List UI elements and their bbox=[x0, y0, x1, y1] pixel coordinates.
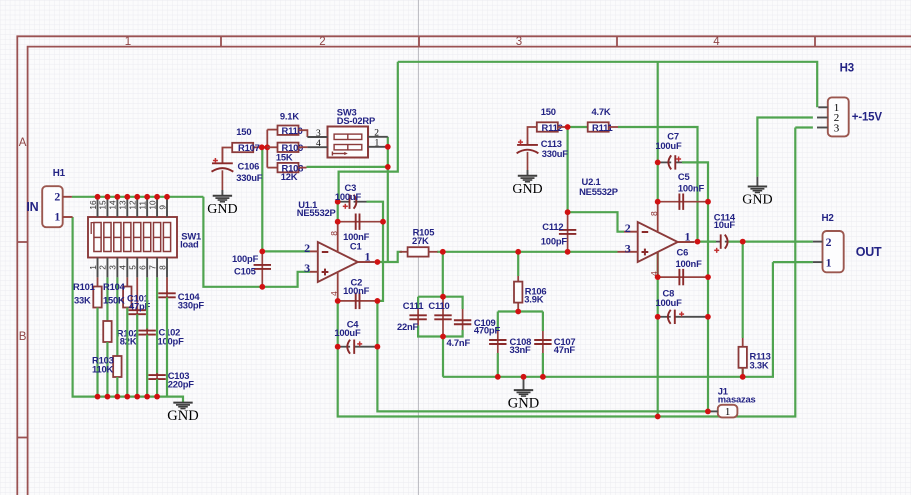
wire C111 top lead drop bbox=[417, 297, 419, 309]
connector H1 bbox=[42, 186, 63, 227]
ground symbol ladder GND bbox=[173, 402, 192, 404]
resistor R109 bbox=[267, 146, 277, 148]
resistor R105 bbox=[400, 251, 408, 253]
connector H3 bbox=[828, 97, 849, 136]
wire R105 node down to C110 rail bbox=[442, 252, 444, 297]
resistor R101 bbox=[93, 287, 101, 308]
wire C2 right down to C4 right bbox=[376, 301, 378, 347]
svg-text:C6: C6 bbox=[677, 246, 689, 257]
C106 lead to ground bbox=[221, 190, 223, 196]
junction dot SW1 pin 9 bbox=[164, 194, 170, 200]
svg-text:100uF: 100uF bbox=[334, 327, 361, 338]
svg-text:3: 3 bbox=[516, 36, 522, 48]
svg-text:R107: R107 bbox=[238, 142, 260, 153]
R111 lead right bbox=[609, 126, 618, 128]
svg-text:100uF: 100uF bbox=[656, 297, 683, 308]
wire SW3 pin2 down to pin1 node bbox=[387, 137, 389, 147]
capacitor C109 bbox=[462, 309, 464, 330]
svg-text:100pF: 100pF bbox=[158, 335, 185, 346]
junction dot C114 right bbox=[740, 239, 746, 245]
junction dot ground stub bbox=[521, 374, 527, 380]
junction dot R107 right bbox=[259, 144, 265, 150]
wire U2 pin4 to C6 C8 left bbox=[657, 252, 659, 316]
junction dot C105 top bbox=[259, 249, 265, 255]
capacitor C3 polarized bbox=[338, 201, 350, 203]
SW1 slide element 3 bbox=[114, 223, 121, 252]
capacitor C5 bbox=[658, 201, 708, 203]
U1 pin8 line bbox=[337, 222, 339, 253]
J1 pin stub bbox=[708, 410, 718, 412]
svg-text:100nF: 100nF bbox=[678, 183, 705, 194]
junction dot R103 rail bbox=[114, 394, 120, 400]
svg-text:12K: 12K bbox=[281, 171, 298, 182]
capacitor C111 bbox=[417, 309, 419, 326]
SW1 slide element 1 bbox=[94, 223, 101, 252]
svg-text:H3: H3 bbox=[840, 62, 854, 74]
svg-text:load: load bbox=[180, 239, 199, 250]
connector H2 bbox=[823, 231, 844, 272]
frame tick column 3-4 bbox=[616, 36, 618, 46]
svg-text:6: 6 bbox=[137, 265, 147, 270]
junction dot R109 bus bbox=[264, 144, 270, 150]
wire C105 bottom to U1 pin3 bbox=[262, 272, 310, 287]
svg-text:2: 2 bbox=[98, 265, 108, 270]
capacitor C8 polarized bbox=[658, 316, 671, 318]
wire U1 output branch down to C2 right bbox=[377, 262, 383, 301]
wire U1 V+ column C3 to C1 bbox=[337, 202, 339, 222]
R112 lead to C113 bbox=[528, 127, 537, 145]
H1 pin 2 stub bbox=[63, 196, 72, 198]
U1 pin4 line bbox=[337, 272, 339, 301]
svg-text:8: 8 bbox=[329, 231, 339, 236]
U2 pin3 stub bbox=[618, 251, 638, 253]
wire R106 bottom rail corner to C108 bbox=[497, 312, 499, 332]
svg-text:GND: GND bbox=[512, 182, 542, 197]
resistor R102 bbox=[103, 321, 111, 342]
wire ground rail under C108 C107 bbox=[443, 262, 773, 377]
frame tick column 2-3 bbox=[418, 36, 420, 46]
SW1 top pin 14 bbox=[116, 197, 118, 217]
C113 lead to ground bbox=[527, 170, 529, 176]
resistor R106 bbox=[517, 276, 519, 282]
SW3 pin 4 stub bbox=[307, 146, 327, 148]
junction dot C110 bottom bbox=[440, 334, 446, 340]
junction dot SW1 pin 16 bbox=[95, 194, 101, 200]
H3 pin1 stub bbox=[818, 106, 828, 108]
junction dot C6 left bbox=[655, 274, 661, 280]
junction dot C107 bottom bbox=[540, 374, 546, 380]
junction dot J1 bbox=[705, 409, 711, 415]
op-amp U2.1 bbox=[638, 222, 678, 262]
wire R102 to rail bbox=[106, 342, 108, 397]
SW1 bottom pin 7 bbox=[156, 258, 158, 278]
wire R112 node down to C112 bbox=[566, 127, 568, 212]
junction dot R104 rail bbox=[124, 394, 130, 400]
op-amp U1.1 bbox=[318, 242, 358, 282]
U2 pin4 line bbox=[657, 252, 659, 277]
svg-text:7: 7 bbox=[147, 265, 157, 270]
svg-text:8: 8 bbox=[649, 211, 659, 216]
junction dot SW1 pin 12 bbox=[134, 194, 140, 200]
wire C107 bottom to ground rail bbox=[542, 353, 544, 377]
junction dot C5 left bbox=[655, 199, 661, 205]
U2 pin2 stub bbox=[624, 231, 638, 233]
frame tick column 4-5 bbox=[814, 36, 816, 46]
U2 output stub bbox=[678, 241, 695, 243]
wire C4 right down to masazas rail bbox=[377, 347, 708, 412]
SW3 actuator arrow bbox=[331, 152, 333, 156]
svg-text:4.7K: 4.7K bbox=[592, 106, 611, 117]
junction dot C108 bottom bbox=[495, 374, 501, 380]
SW3 pin 1 stub bbox=[368, 146, 388, 148]
svg-text:C1: C1 bbox=[350, 241, 362, 252]
capacitor C1 bbox=[338, 221, 383, 223]
SW3 pin 3 stub bbox=[307, 136, 327, 138]
resistor R113 bbox=[742, 338, 744, 347]
svg-text:1: 1 bbox=[375, 139, 380, 149]
wire SW3 pin1 node down to R108 node bbox=[387, 147, 389, 167]
wire C3 right to C1 right bbox=[367, 202, 384, 222]
junction dot C4 left bbox=[335, 344, 341, 350]
svg-text:R104: R104 bbox=[103, 281, 126, 292]
junction dot C101 rail bbox=[134, 394, 140, 400]
svg-text:33K: 33K bbox=[74, 294, 91, 305]
wire H1 pin2 to SW1 input bus bbox=[72, 196, 204, 198]
wire column pin2 down bbox=[106, 277, 108, 321]
svg-text:2: 2 bbox=[304, 241, 310, 255]
svg-text:NE5532P: NE5532P bbox=[579, 186, 618, 197]
junction dot C1 right bbox=[380, 219, 386, 225]
R108 lead to node bbox=[299, 167, 307, 169]
connector J1 bbox=[718, 405, 738, 418]
junction dot C2 right bbox=[375, 298, 381, 304]
svg-text:2: 2 bbox=[54, 189, 60, 203]
svg-text:8: 8 bbox=[157, 265, 167, 270]
wire C7 right to C5 right column bbox=[682, 162, 708, 201]
capacitor C7 polarized bbox=[658, 161, 672, 163]
wire column pin3 down bbox=[116, 277, 118, 356]
wire C112 top node to U2 pin2 bbox=[568, 212, 624, 232]
junction dot C8 right bbox=[705, 314, 711, 320]
U1 output pin1 stub bbox=[358, 261, 375, 263]
SW3 slide element bottom bbox=[334, 145, 362, 150]
wire column pin5 to C101 bbox=[136, 277, 138, 310]
junction dot SW1 pin 13 bbox=[124, 194, 130, 200]
wire top +15V bus bbox=[398, 62, 817, 108]
svg-text:22nF: 22nF bbox=[397, 321, 419, 332]
junction dot R102 rail bbox=[105, 394, 111, 400]
SW1 bottom pin 1 bbox=[97, 258, 99, 278]
capacitor C107 bbox=[542, 331, 544, 353]
svg-text:1: 1 bbox=[826, 256, 832, 270]
ground symbol center GND bbox=[514, 389, 533, 391]
junction dot U1 output bbox=[375, 259, 381, 265]
svg-text:3: 3 bbox=[834, 122, 840, 134]
junction dot C112 bottom bbox=[565, 249, 571, 255]
capacitor C101 bbox=[136, 308, 138, 316]
svg-text:C110: C110 bbox=[428, 300, 449, 311]
SW1 bottom pin 5 bbox=[136, 258, 138, 278]
capacitor C112 bbox=[567, 212, 569, 252]
wire H3 pin2 down to GND bbox=[757, 118, 813, 177]
wire R104 to rail bbox=[126, 308, 128, 397]
svg-text:100uF: 100uF bbox=[655, 140, 682, 151]
wire U1 output to R105 elbow bbox=[377, 252, 402, 262]
U2 pin8 line bbox=[657, 202, 659, 232]
frame tick column 1-2 bbox=[220, 36, 222, 46]
wire R103 to rail bbox=[116, 377, 118, 397]
capacitor C104 bbox=[166, 291, 168, 299]
capacitor C106 lead from R107 bbox=[222, 148, 232, 164]
wire H1 pin1 down to ground rail bbox=[73, 217, 98, 397]
svg-text:2: 2 bbox=[826, 235, 832, 249]
SW1 bottom pin 3 bbox=[116, 258, 118, 278]
wire C7 left to C5 left bbox=[657, 162, 659, 201]
H2 pin2 stub bbox=[813, 241, 823, 243]
svg-text:1: 1 bbox=[365, 249, 371, 263]
svg-text:C105: C105 bbox=[234, 266, 256, 277]
svg-text:3: 3 bbox=[108, 265, 118, 270]
junction dot C112 top bbox=[565, 209, 571, 215]
junction dot R112 R111 node bbox=[565, 124, 571, 130]
wire C110 bottom node down to ground rail bbox=[442, 337, 444, 377]
resistor R108 bbox=[267, 167, 277, 169]
H3 pin2 stub bbox=[817, 117, 828, 119]
junction dot C1 left bbox=[335, 219, 341, 225]
junction dot R108 node bbox=[385, 164, 391, 170]
wire column pin7 to C103 bbox=[156, 277, 158, 375]
frame tick row A-B bbox=[17, 241, 27, 243]
resistor R112 bbox=[537, 122, 558, 131]
R110 lead to SW3 pin3 bbox=[299, 130, 308, 137]
svg-text:150: 150 bbox=[541, 106, 556, 117]
wire C101 to rail bbox=[136, 314, 138, 396]
junction dot SW1 pin 11 bbox=[144, 194, 150, 200]
junction dot R101 rail bbox=[95, 394, 101, 400]
svg-text:10uF: 10uF bbox=[714, 219, 736, 230]
wire SW1 bus corner down to C105 bbox=[203, 197, 262, 287]
svg-text:330pF: 330pF bbox=[178, 299, 205, 310]
svg-text:4: 4 bbox=[713, 36, 720, 48]
capacitor C114 polarized bbox=[716, 241, 721, 243]
junction dot SW1 pin 14 bbox=[114, 194, 120, 200]
svg-text:14: 14 bbox=[108, 200, 118, 210]
svg-text:H2: H2 bbox=[822, 213, 835, 224]
svg-text:100nF: 100nF bbox=[676, 258, 703, 269]
wire R106 bottom rail corner to C107 bbox=[542, 312, 544, 332]
wire R107 node to R109 bus bbox=[262, 146, 268, 148]
wire U2 output to C114 bbox=[698, 241, 717, 243]
svg-text:3: 3 bbox=[304, 261, 310, 275]
capacitor C105 bbox=[261, 251, 263, 286]
svg-text:3.9K: 3.9K bbox=[524, 293, 543, 304]
svg-text:9: 9 bbox=[157, 205, 167, 210]
R109 lead to SW3 pin4 bbox=[299, 146, 308, 148]
svg-text:2: 2 bbox=[374, 129, 379, 139]
svg-text:GND: GND bbox=[207, 202, 237, 217]
SW1 top pin 16 bbox=[97, 197, 99, 217]
wire SW1 ladder ground rail bbox=[98, 397, 184, 403]
wire C111 C110 C109 top rail bbox=[418, 297, 463, 309]
SW1 slide element 7 bbox=[153, 223, 160, 252]
svg-text:3: 3 bbox=[316, 129, 321, 139]
frame tick row B-C bbox=[17, 437, 27, 439]
wire column pin4 to R104 bbox=[126, 277, 128, 286]
SW1 slide element 8 bbox=[163, 223, 170, 252]
U1 pin3 stub bbox=[310, 271, 318, 273]
svg-text:100pF: 100pF bbox=[232, 253, 259, 264]
wire C1 right down to U1 output row bbox=[382, 222, 384, 262]
wire R112 to R111 bbox=[568, 126, 588, 128]
wire C102 to rail bbox=[146, 335, 148, 397]
SW1 top pin 9 bbox=[166, 197, 168, 217]
wire H2 pin1 to ground rail bbox=[773, 261, 813, 263]
SW1 slide element 2 bbox=[104, 223, 111, 252]
svg-text:4.7nF: 4.7nF bbox=[447, 337, 471, 348]
R112 lead right bbox=[558, 126, 568, 128]
svg-text:B: B bbox=[19, 331, 27, 343]
svg-text:5: 5 bbox=[128, 265, 138, 270]
svg-text:10: 10 bbox=[147, 200, 157, 210]
junction dot C102 rail bbox=[144, 394, 150, 400]
junction dot C5 right bbox=[705, 199, 711, 205]
svg-text:1: 1 bbox=[725, 406, 731, 418]
svg-text:C111: C111 bbox=[403, 300, 424, 311]
capacitor C113 polarized bbox=[527, 140, 529, 145]
svg-text:15: 15 bbox=[98, 200, 108, 210]
wire R106 node to C112 and U2 pin3 bbox=[518, 251, 617, 253]
svg-text:4: 4 bbox=[118, 265, 128, 270]
svg-text:R101: R101 bbox=[73, 281, 95, 292]
junction dot C7 left bbox=[655, 160, 661, 166]
switch SW1 body bbox=[88, 217, 177, 258]
capacitor C110 bbox=[442, 297, 444, 337]
svg-text:9.1K: 9.1K bbox=[280, 110, 299, 121]
wire U2 power column down to -15V rail bbox=[657, 317, 659, 417]
svg-text:150: 150 bbox=[236, 126, 251, 137]
capacitor C6 bbox=[658, 276, 708, 278]
junction dot C4 right bbox=[375, 344, 381, 350]
svg-text:A: A bbox=[19, 137, 27, 149]
wire C105 top node to U1 pin2 bbox=[262, 250, 310, 252]
svg-text:1: 1 bbox=[125, 36, 131, 48]
svg-text:150K: 150K bbox=[103, 294, 125, 305]
svg-text:100pF: 100pF bbox=[541, 235, 568, 246]
SW1 actuator mark bbox=[91, 223, 94, 234]
capacitor C102 bbox=[146, 329, 148, 337]
svg-text:3.3K: 3.3K bbox=[750, 359, 769, 370]
capacitor C4 polarized bbox=[338, 346, 350, 348]
sheet column divider line bbox=[417, 0, 419, 495]
svg-text:1: 1 bbox=[54, 210, 60, 224]
svg-text:470pF: 470pF bbox=[474, 325, 501, 336]
svg-text:H1: H1 bbox=[53, 168, 66, 179]
svg-text:C106: C106 bbox=[238, 161, 260, 172]
junction dot C3 left bbox=[335, 199, 341, 205]
svg-text:IN: IN bbox=[26, 200, 38, 214]
resistor R110 bbox=[267, 129, 277, 131]
SW1 slide element 5 bbox=[134, 223, 141, 252]
SW3 slide element top bbox=[334, 134, 362, 139]
svg-text:110K: 110K bbox=[92, 364, 114, 375]
SW1 top pin 12 bbox=[136, 197, 138, 217]
SW1 bottom pin 2 bbox=[106, 258, 108, 278]
SW1 bottom pin 4 bbox=[126, 258, 128, 278]
ground symbol C113 GND bbox=[518, 175, 537, 177]
switch SW3 body bbox=[328, 127, 369, 158]
wire C108 bottom to ground rail bbox=[497, 353, 499, 377]
wire +15V feed down to C3 loop bbox=[339, 62, 398, 202]
resistor R111 bbox=[588, 122, 609, 131]
svg-text:15K: 15K bbox=[276, 152, 293, 163]
junction dot SW3 pin1 bbox=[385, 144, 391, 150]
wire C114 to H2 pin2 bbox=[728, 241, 813, 243]
resistor R103 bbox=[113, 356, 121, 377]
junction dot U2 power column rail bbox=[655, 414, 661, 420]
SW1 top pin 15 bbox=[106, 197, 108, 217]
wire H3 pin3 to -15V rail bbox=[795, 126, 813, 128]
wire R113 bottom to ground rail bbox=[742, 368, 744, 377]
svg-text:330uF: 330uF bbox=[236, 172, 263, 183]
svg-text:330uF: 330uF bbox=[542, 148, 569, 159]
capacitor C103 bbox=[156, 373, 158, 381]
svg-text:GND: GND bbox=[167, 408, 198, 424]
svg-text:C5: C5 bbox=[678, 171, 690, 182]
junction dot U2 output bbox=[695, 239, 701, 245]
svg-text:DS-02RP: DS-02RP bbox=[337, 115, 375, 126]
svg-text:27K: 27K bbox=[412, 235, 429, 246]
SW1 bottom pin 6 bbox=[146, 258, 148, 278]
svg-text:2: 2 bbox=[625, 221, 631, 235]
wire R105 output node bbox=[437, 251, 518, 253]
svg-text:masazas: masazas bbox=[718, 394, 756, 405]
svg-text:OUT: OUT bbox=[856, 245, 882, 259]
svg-text:13: 13 bbox=[118, 200, 128, 210]
wire R107 node down to C105 top bbox=[261, 147, 263, 251]
wire U1 pin4 column C2 to C4 bbox=[337, 301, 339, 347]
junction dot R106 top node bbox=[515, 249, 521, 255]
junction dot SW1 pin 10 bbox=[154, 194, 160, 200]
svg-text:4: 4 bbox=[316, 139, 321, 149]
SW1 top pin 11 bbox=[146, 197, 148, 217]
ground symbol right GND bbox=[756, 177, 758, 187]
junction dot R105 output bbox=[440, 249, 446, 255]
resistor R104 bbox=[123, 287, 131, 308]
svg-text:3: 3 bbox=[625, 242, 631, 256]
svg-text:33nF: 33nF bbox=[510, 344, 532, 355]
wire R101 to rail bbox=[96, 308, 98, 397]
svg-text:+-15V: +-15V bbox=[852, 112, 883, 124]
SW1 bottom pin 8 bbox=[166, 258, 168, 278]
svg-text:NE5532P: NE5532P bbox=[297, 207, 336, 218]
wire column pin6 to C102 bbox=[146, 277, 148, 330]
svg-text:100nF: 100nF bbox=[343, 285, 370, 296]
wire R106 bottom rail bbox=[498, 310, 543, 312]
svg-text:1: 1 bbox=[685, 229, 691, 243]
SW1 slide element 6 bbox=[144, 223, 151, 252]
svg-text:16: 16 bbox=[88, 200, 98, 210]
wire R110-R109-R108 left bus bbox=[266, 130, 268, 168]
wire SW3 node down to U1 output bbox=[387, 167, 389, 262]
SW1 top pin 13 bbox=[126, 197, 128, 217]
U1 pin2 stub bbox=[310, 250, 318, 252]
svg-text:2: 2 bbox=[319, 36, 325, 48]
svg-text:GND: GND bbox=[508, 395, 539, 411]
svg-text:4: 4 bbox=[329, 291, 339, 296]
wire C114 node down to R113 bbox=[742, 242, 744, 338]
svg-text:GND: GND bbox=[742, 193, 772, 208]
svg-text:1: 1 bbox=[88, 265, 98, 270]
